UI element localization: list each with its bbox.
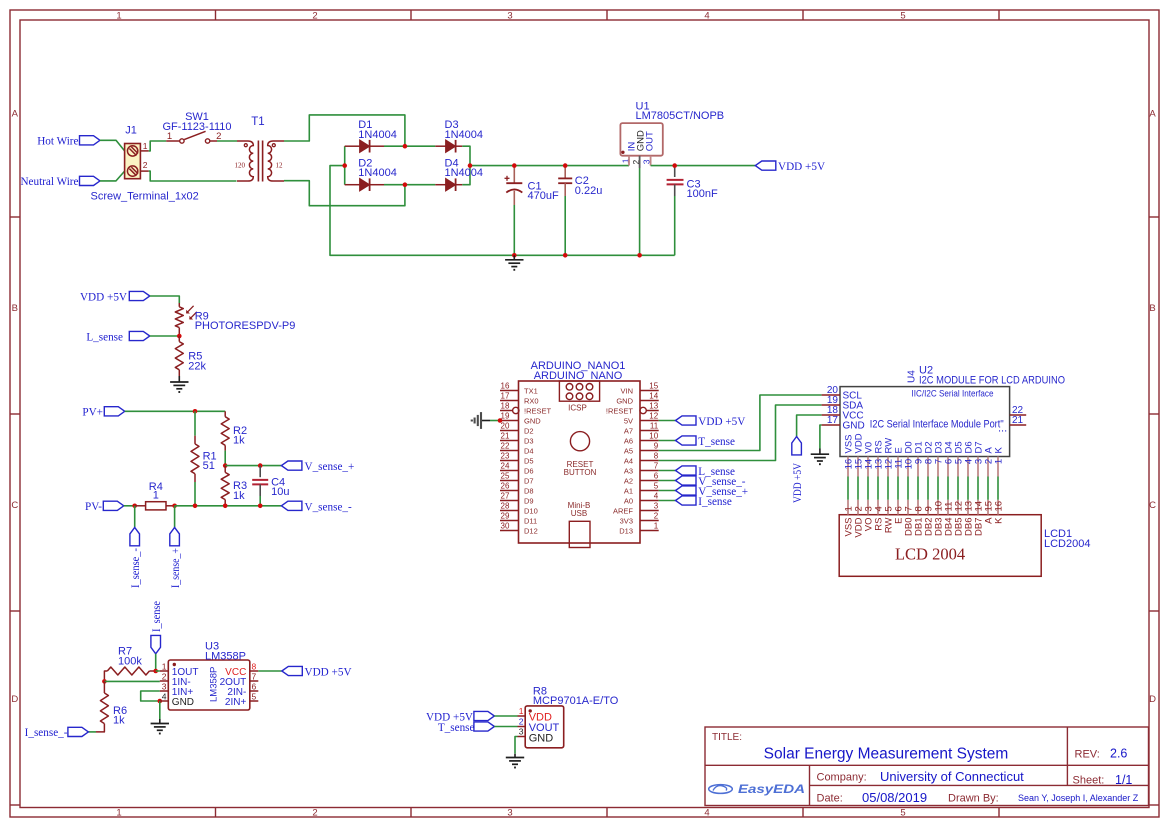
svg-text:4: 4 xyxy=(704,10,709,21)
svg-text:2: 2 xyxy=(654,511,659,520)
svg-text:K: K xyxy=(993,517,1004,524)
svg-text:8: 8 xyxy=(654,451,659,460)
wire xyxy=(100,171,125,181)
svg-text:4: 4 xyxy=(654,491,659,500)
svg-text:10u: 10u xyxy=(271,486,289,498)
wire xyxy=(259,496,261,506)
wire xyxy=(659,420,676,422)
net flag VDD +5V xyxy=(426,711,494,723)
wire xyxy=(659,395,822,451)
wire xyxy=(104,680,159,682)
svg-text:U4: U4 xyxy=(907,370,918,383)
svg-text:T_sense: T_sense xyxy=(698,436,735,448)
wire xyxy=(225,465,281,467)
svg-text:B: B xyxy=(12,303,18,314)
svg-text:...: ... xyxy=(998,423,1007,435)
junction xyxy=(172,504,177,509)
svg-text:A7: A7 xyxy=(624,426,633,435)
junction xyxy=(403,182,408,187)
wire xyxy=(258,670,282,672)
net flag PV- xyxy=(85,501,124,513)
svg-text:GND: GND xyxy=(524,416,541,425)
junction xyxy=(468,163,473,168)
svg-text:17: 17 xyxy=(501,391,510,400)
junction xyxy=(342,163,347,168)
svg-text:B: B xyxy=(1149,303,1155,314)
svg-text:2.6: 2.6 xyxy=(1110,747,1127,761)
svg-text:VIN: VIN xyxy=(620,386,633,395)
svg-text:D6: D6 xyxy=(524,466,534,475)
svg-text:14: 14 xyxy=(649,391,658,400)
svg-text:51: 51 xyxy=(203,460,215,472)
junction xyxy=(132,504,137,509)
svg-text:20: 20 xyxy=(501,421,510,430)
svg-text:1: 1 xyxy=(162,661,167,671)
ground xyxy=(472,412,490,429)
svg-text:10: 10 xyxy=(649,431,658,440)
wire xyxy=(997,477,999,500)
svg-text:A: A xyxy=(12,109,19,120)
junction xyxy=(258,504,263,509)
ground xyxy=(151,719,169,734)
net flag V_sense_- xyxy=(676,476,746,488)
svg-text:T1: T1 xyxy=(251,116,264,128)
wire xyxy=(977,477,979,500)
svg-text:2: 2 xyxy=(312,10,317,21)
svg-text:I_sense_-: I_sense_- xyxy=(130,548,142,588)
svg-text:3: 3 xyxy=(162,681,167,691)
svg-text:I_sense_-: I_sense_- xyxy=(25,727,68,739)
diode D3 1N4004 xyxy=(435,119,483,153)
wire xyxy=(100,140,125,151)
net flag VDD +5V xyxy=(80,291,150,303)
svg-text:18: 18 xyxy=(501,401,510,410)
svg-text:A1: A1 xyxy=(624,486,633,495)
svg-text:Neutral Wire: Neutral Wire xyxy=(20,176,78,188)
net flag Neutral Wire xyxy=(20,176,100,188)
svg-text:7: 7 xyxy=(654,461,659,470)
wire xyxy=(494,726,517,728)
svg-text:GND: GND xyxy=(616,396,633,405)
junction xyxy=(258,463,263,468)
wire xyxy=(659,470,676,472)
wire GND xyxy=(820,425,822,449)
svg-text:D3: D3 xyxy=(524,436,534,445)
net flag I_sense_- xyxy=(25,727,89,739)
net flag T_sense xyxy=(438,722,495,734)
svg-text:USB: USB xyxy=(571,509,587,518)
svg-text:VDD +5V: VDD +5V xyxy=(698,416,745,428)
capacitor C1 470uF xyxy=(505,167,559,205)
svg-text:PHOTORESPDV-P9: PHOTORESPDV-P9 xyxy=(195,320,296,332)
capacitor C4 10u xyxy=(252,466,289,499)
net flag T_sense xyxy=(676,436,735,448)
lcd LCD1 LCD2004 xyxy=(839,500,1090,577)
svg-text:22: 22 xyxy=(501,441,510,450)
svg-text:5V: 5V xyxy=(624,416,633,425)
resistor R5 22k xyxy=(175,336,206,376)
wire xyxy=(175,505,282,507)
svg-text:1: 1 xyxy=(654,521,659,530)
svg-text:1: 1 xyxy=(994,459,1005,464)
svg-text:5: 5 xyxy=(654,481,659,490)
svg-text:30: 30 xyxy=(501,521,510,530)
wire xyxy=(857,477,859,500)
svg-text:GND: GND xyxy=(529,732,554,744)
svg-text:TITLE:: TITLE: xyxy=(712,732,742,743)
regulator U1 LM7805CT/NOPB xyxy=(620,100,724,168)
net flag Hot Wire xyxy=(37,136,100,148)
svg-text:Date:: Date: xyxy=(817,792,843,804)
wire xyxy=(515,737,518,754)
wire xyxy=(639,168,641,255)
svg-text:PV+: PV+ xyxy=(82,407,103,419)
wire xyxy=(659,405,822,461)
wire xyxy=(957,477,959,500)
svg-text:1k: 1k xyxy=(233,435,245,447)
svg-text:1/1: 1/1 xyxy=(1115,773,1132,787)
svg-text:2: 2 xyxy=(312,807,317,818)
junction xyxy=(563,163,568,168)
wire xyxy=(659,500,676,502)
wire xyxy=(149,141,167,151)
svg-text:University of Connecticut: University of Connecticut xyxy=(880,769,1024,784)
svg-text:BUTTON: BUTTON xyxy=(564,468,597,477)
svg-text:OUT: OUT xyxy=(645,131,656,151)
svg-text:D9: D9 xyxy=(524,496,534,505)
wire xyxy=(659,490,676,492)
svg-text:1N4004: 1N4004 xyxy=(358,167,397,179)
svg-text:D13: D13 xyxy=(619,526,633,535)
wire xyxy=(490,420,500,422)
svg-text:120: 120 xyxy=(235,162,246,170)
svg-text:1: 1 xyxy=(153,490,159,502)
wire xyxy=(141,691,160,701)
wire xyxy=(887,477,889,500)
svg-text:2: 2 xyxy=(519,716,524,726)
svg-text:L_sense: L_sense xyxy=(86,331,123,343)
svg-text:V_sense_+: V_sense_+ xyxy=(305,461,355,473)
wire xyxy=(937,477,939,500)
svg-text:2: 2 xyxy=(162,671,167,681)
ground xyxy=(811,449,829,465)
svg-text:3: 3 xyxy=(519,726,524,736)
svg-text:I2C MODULE FOR LCD ARDUINO: I2C MODULE FOR LCD ARDUINO xyxy=(919,374,1065,386)
net flag I_sense xyxy=(676,496,732,508)
wire xyxy=(150,335,180,337)
svg-text:1k: 1k xyxy=(113,715,125,727)
svg-text:LM7805CT/NOPB: LM7805CT/NOPB xyxy=(636,110,725,122)
svg-text:VDD +5V: VDD +5V xyxy=(305,667,352,679)
svg-text:D: D xyxy=(1149,694,1156,705)
svg-text:A4: A4 xyxy=(624,456,633,465)
svg-text:Drawn By:: Drawn By: xyxy=(948,792,999,804)
wire xyxy=(156,670,160,672)
svg-text:LM358P: LM358P xyxy=(209,667,220,702)
svg-text:5: 5 xyxy=(252,691,257,701)
wire xyxy=(674,196,676,255)
svg-text:VDD +5V: VDD +5V xyxy=(80,291,127,303)
svg-text:25: 25 xyxy=(501,471,510,480)
wire xyxy=(284,181,405,206)
svg-text:D4: D4 xyxy=(524,446,534,455)
wire xyxy=(217,140,237,142)
diode D4 1N4004 xyxy=(435,157,483,191)
svg-text:IIC/I2C Serial Interface: IIC/I2C Serial Interface xyxy=(912,388,994,398)
svg-text:13: 13 xyxy=(649,401,658,410)
junction xyxy=(637,253,642,258)
svg-text:12: 12 xyxy=(276,162,284,170)
svg-text:D8: D8 xyxy=(524,486,534,495)
svg-text:1: 1 xyxy=(519,706,524,716)
svg-text:T_sense: T_sense xyxy=(438,722,475,734)
svg-text:1: 1 xyxy=(143,141,148,151)
svg-text:1: 1 xyxy=(116,10,121,21)
svg-text:A2: A2 xyxy=(624,476,633,485)
svg-text:29: 29 xyxy=(501,511,510,520)
switch SW1 GF-1123-1110 xyxy=(162,111,231,143)
net flag I_sense xyxy=(151,601,163,654)
wire xyxy=(967,477,969,500)
resistor R7 100k xyxy=(104,646,155,682)
svg-text:22k: 22k xyxy=(188,361,206,373)
resistor R2 1k xyxy=(221,411,247,450)
net flag L_sense xyxy=(86,331,149,343)
wire xyxy=(659,480,676,482)
svg-text:Company:: Company: xyxy=(817,772,867,784)
wire xyxy=(125,410,225,412)
wire xyxy=(134,506,136,528)
svg-text:1k: 1k xyxy=(233,490,245,502)
svg-text:1N4004: 1N4004 xyxy=(445,129,484,141)
wire xyxy=(224,451,226,466)
svg-text:I2C Serial Interface Module Po: I2C Serial Interface Module Port'' xyxy=(870,419,1004,431)
svg-text:3: 3 xyxy=(654,501,659,510)
svg-text:V_sense_-: V_sense_- xyxy=(305,501,352,513)
svg-text:19: 19 xyxy=(501,411,510,420)
capacitor C2 0.22u xyxy=(558,166,602,197)
svg-text:16: 16 xyxy=(501,381,510,390)
svg-text:!RESET: !RESET xyxy=(606,406,634,415)
svg-text:LCD 2004: LCD 2004 xyxy=(895,545,965,564)
svg-text:D2: D2 xyxy=(524,426,534,435)
net flag I_sense_+ xyxy=(170,527,182,588)
wire xyxy=(470,165,629,167)
svg-text:AREF: AREF xyxy=(613,506,633,515)
resistor R4 1 xyxy=(135,481,175,510)
net flag V_sense_+ xyxy=(676,486,749,498)
svg-text:5: 5 xyxy=(900,10,905,21)
svg-text:100k: 100k xyxy=(118,655,142,667)
svg-text:VDD +5V: VDD +5V xyxy=(778,161,825,173)
svg-text:21: 21 xyxy=(1012,415,1024,426)
wire xyxy=(659,440,676,442)
svg-text:PV-: PV- xyxy=(85,501,102,513)
svg-text:Sean Y, Joseph I, Alexander Z: Sean Y, Joseph I, Alexander Z xyxy=(1018,793,1139,803)
svg-text:21: 21 xyxy=(501,431,510,440)
junction xyxy=(102,679,107,684)
wire xyxy=(897,477,899,500)
net flag VDD +5V xyxy=(676,416,746,428)
net flag VDD +5V xyxy=(282,666,352,678)
sensor R8 MCP9701A-E/TO xyxy=(518,685,619,748)
wire xyxy=(564,196,566,255)
junction xyxy=(177,334,182,339)
svg-text:C: C xyxy=(11,500,18,511)
svg-text:REV:: REV: xyxy=(1075,748,1100,760)
resistor R6 1k xyxy=(96,681,127,732)
svg-text:1N4004: 1N4004 xyxy=(445,167,484,179)
svg-text:3V3: 3V3 xyxy=(620,516,633,525)
svg-text:0.22u: 0.22u xyxy=(575,185,603,197)
wire xyxy=(927,477,929,500)
svg-text:1: 1 xyxy=(116,807,121,818)
wire VCC to VDD flag xyxy=(797,415,822,437)
transformer T1 xyxy=(235,116,285,182)
svg-text:I_sense: I_sense xyxy=(698,496,732,508)
svg-text:3: 3 xyxy=(507,10,512,21)
svg-text:LM358P: LM358P xyxy=(205,650,246,662)
svg-text:8: 8 xyxy=(252,661,257,671)
svg-text:TX1: TX1 xyxy=(524,386,538,395)
svg-text:J1: J1 xyxy=(125,125,137,137)
wire xyxy=(987,477,989,500)
svg-text:A5: A5 xyxy=(624,446,633,455)
photoresistor R9 PHOTORESPDV-P9 xyxy=(175,303,295,336)
ground xyxy=(170,376,188,392)
wire xyxy=(651,165,756,167)
net flag V_sense_+ xyxy=(281,461,354,473)
svg-text:16: 16 xyxy=(994,501,1005,512)
svg-text:2IN+: 2IN+ xyxy=(225,697,247,708)
svg-text:A: A xyxy=(1149,109,1156,120)
svg-text:05/08/2019: 05/08/2019 xyxy=(862,790,927,805)
wire xyxy=(330,166,675,256)
wire xyxy=(194,482,196,506)
svg-text:C: C xyxy=(1149,500,1156,511)
svg-text:D12: D12 xyxy=(524,526,538,535)
svg-text:GND: GND xyxy=(172,697,194,708)
svg-text:4: 4 xyxy=(162,691,167,701)
svg-text:Solar Energy Measurement Syste: Solar Energy Measurement System xyxy=(764,745,1009,762)
wire xyxy=(284,115,405,146)
svg-text:I_sense_+: I_sense_+ xyxy=(170,548,182,588)
wire xyxy=(947,477,949,500)
net flag PV+ xyxy=(82,407,124,419)
svg-text:23: 23 xyxy=(501,451,510,460)
svg-text:I_sense: I_sense xyxy=(151,601,163,632)
svg-text:9: 9 xyxy=(654,441,659,450)
junction xyxy=(498,418,503,423)
junction xyxy=(672,163,677,168)
svg-text:6: 6 xyxy=(252,681,257,691)
wire xyxy=(88,731,96,733)
diode D1 1N4004 xyxy=(345,119,397,153)
wire xyxy=(877,477,879,500)
junction xyxy=(512,163,517,168)
diode D2 1N4004 xyxy=(345,157,397,191)
svg-text:ICSP: ICSP xyxy=(568,404,587,413)
svg-text:7: 7 xyxy=(252,671,257,681)
svg-text:100nF: 100nF xyxy=(687,188,718,200)
svg-text:470uF: 470uF xyxy=(528,190,559,202)
svg-text:A6: A6 xyxy=(624,436,633,445)
svg-text:D: D xyxy=(11,694,18,705)
svg-text:RX0: RX0 xyxy=(524,396,539,405)
ground xyxy=(505,255,523,269)
junction xyxy=(153,669,158,674)
junction xyxy=(158,699,163,704)
svg-text:VDD +5V: VDD +5V xyxy=(792,463,804,503)
wire xyxy=(907,477,909,500)
svg-text:26: 26 xyxy=(501,481,510,490)
wire xyxy=(513,205,515,255)
wire xyxy=(917,477,919,500)
junction xyxy=(512,253,517,258)
svg-text:D5: D5 xyxy=(524,456,534,465)
svg-text:11: 11 xyxy=(650,421,659,430)
svg-text:Screw_Terminal_1x02: Screw_Terminal_1x02 xyxy=(91,191,199,203)
svg-text:24: 24 xyxy=(501,461,510,470)
wire xyxy=(155,654,157,671)
svg-text:!RESET: !RESET xyxy=(524,406,552,415)
net flag I_sense_- xyxy=(130,527,142,588)
wire xyxy=(159,701,161,719)
svg-text:28: 28 xyxy=(501,501,510,510)
resistor R3 1k xyxy=(221,466,247,506)
i2c module U2 I2C MODULE FOR LCD ARDUINO xyxy=(822,365,1066,477)
wire xyxy=(384,145,435,147)
wire xyxy=(384,184,435,186)
svg-text:GND: GND xyxy=(843,421,865,432)
svg-text:27: 27 xyxy=(501,491,510,500)
junction xyxy=(403,144,408,149)
svg-text:D7: D7 xyxy=(524,476,534,485)
svg-text:4: 4 xyxy=(704,807,709,818)
wire xyxy=(867,477,869,500)
op-amp U3 LM358P xyxy=(160,641,258,711)
svg-text:MCP9701A-E/TO: MCP9701A-E/TO xyxy=(533,695,619,707)
mcu module ARDUINO_NANO1 xyxy=(500,360,659,547)
capacitor C3 100nF xyxy=(667,166,718,201)
svg-text:K: K xyxy=(993,447,1004,454)
junction xyxy=(193,409,198,414)
junction xyxy=(193,504,198,509)
wire xyxy=(174,506,176,528)
svg-text:A0: A0 xyxy=(624,496,633,505)
svg-text:Sheet:: Sheet: xyxy=(1073,775,1105,787)
svg-text:5: 5 xyxy=(900,807,905,818)
svg-text:D11: D11 xyxy=(524,516,537,525)
net flag VDD +5V xyxy=(755,161,825,173)
svg-text:EasyEDA: EasyEDA xyxy=(738,782,805,796)
svg-text:LCD2004: LCD2004 xyxy=(1044,538,1090,550)
svg-text:D10: D10 xyxy=(524,506,538,515)
wire xyxy=(124,505,135,507)
svg-text:Hot Wire: Hot Wire xyxy=(37,136,78,148)
svg-text:A3: A3 xyxy=(624,466,633,475)
resistor R1 51 xyxy=(191,436,217,482)
net flag L_sense xyxy=(676,466,735,478)
svg-text:12: 12 xyxy=(649,411,658,420)
junction xyxy=(223,504,228,509)
net flag VDD +5V xyxy=(792,437,804,504)
wire xyxy=(494,715,517,717)
connector J1 Screw_Terminal_1x02 xyxy=(91,125,199,203)
svg-text:GF-1123-1110: GF-1123-1110 xyxy=(162,121,231,133)
svg-text:3: 3 xyxy=(507,807,512,818)
wire xyxy=(344,146,346,185)
